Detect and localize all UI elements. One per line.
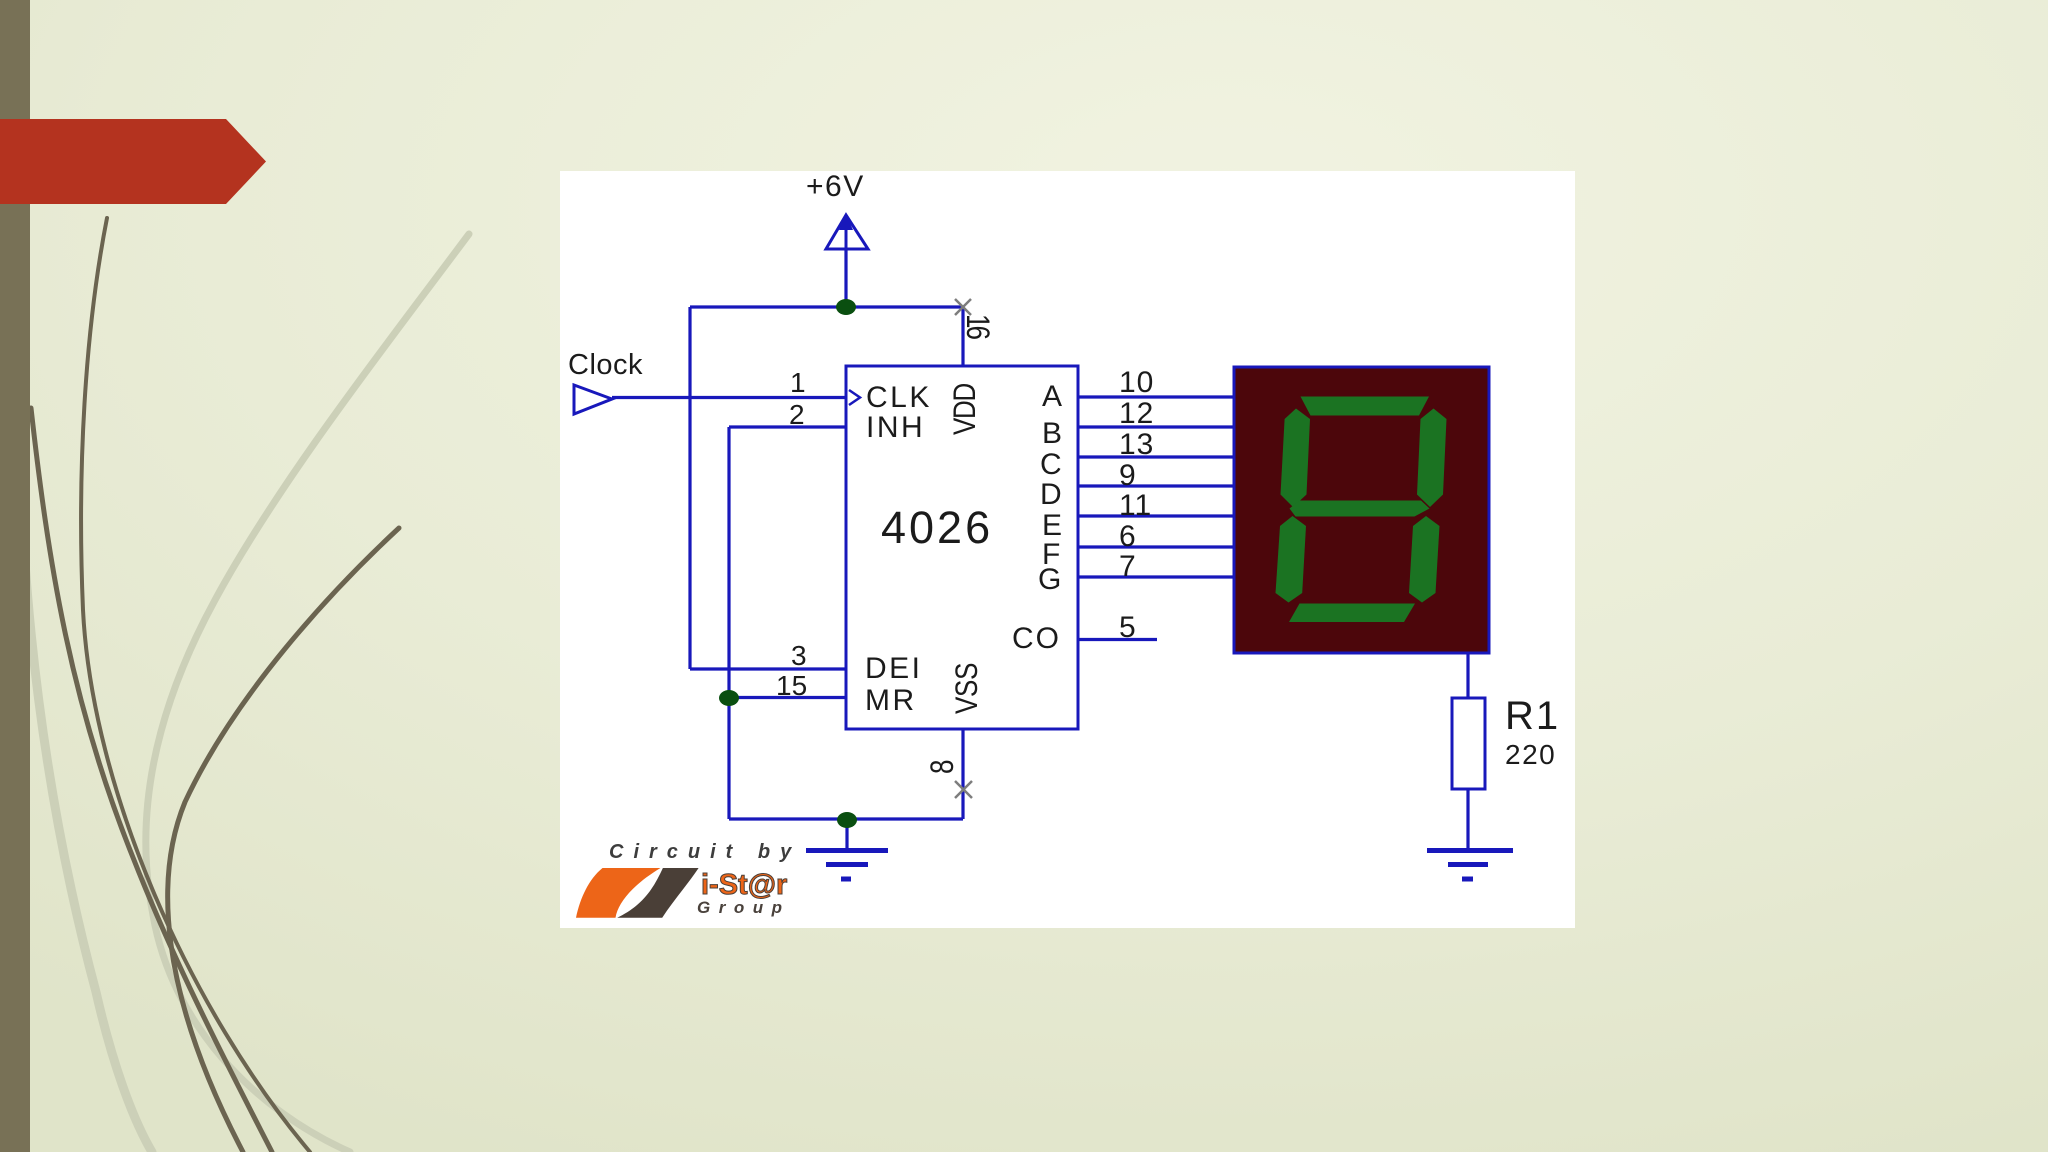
svg-text:220: 220 xyxy=(1505,739,1556,770)
svg-text:16: 16 xyxy=(959,314,995,340)
svg-text:Group: Group xyxy=(697,898,791,917)
svg-text:13: 13 xyxy=(1119,428,1154,461)
svg-text:MR: MR xyxy=(865,684,917,717)
svg-text:VSS: VSS xyxy=(950,663,985,714)
svg-text:8: 8 xyxy=(924,760,960,774)
svg-text:B: B xyxy=(1042,417,1062,450)
svg-text:Clock: Clock xyxy=(568,349,643,381)
svg-text:4026: 4026 xyxy=(881,502,993,553)
svg-text:VDD: VDD xyxy=(948,383,983,435)
svg-text:DEI: DEI xyxy=(865,652,923,685)
svg-text:Circuit by: Circuit by xyxy=(609,841,801,863)
svg-text:15: 15 xyxy=(776,670,807,701)
svg-text:R1: R1 xyxy=(1505,694,1560,738)
svg-text:11: 11 xyxy=(1119,489,1152,522)
svg-text:D: D xyxy=(1040,478,1062,511)
svg-text:CLK: CLK xyxy=(866,381,932,414)
svg-text:5: 5 xyxy=(1119,611,1137,644)
svg-text:A: A xyxy=(1042,380,1062,413)
svg-text:1: 1 xyxy=(790,367,806,398)
svg-text:CO: CO xyxy=(1012,622,1061,655)
svg-text:7: 7 xyxy=(1119,550,1137,583)
svg-text:C: C xyxy=(1040,448,1062,481)
svg-text:6: 6 xyxy=(1119,520,1137,553)
svg-text:12: 12 xyxy=(1119,397,1154,430)
svg-text:3: 3 xyxy=(791,640,807,671)
svg-text:INH: INH xyxy=(866,411,925,444)
svg-text:i-St@r: i-St@r xyxy=(701,869,787,901)
svg-text:G: G xyxy=(1038,563,1061,596)
svg-text:9: 9 xyxy=(1119,459,1137,492)
svg-text:10: 10 xyxy=(1119,366,1154,399)
svg-text:+6V: +6V xyxy=(806,170,865,203)
svg-text:2: 2 xyxy=(789,399,805,430)
